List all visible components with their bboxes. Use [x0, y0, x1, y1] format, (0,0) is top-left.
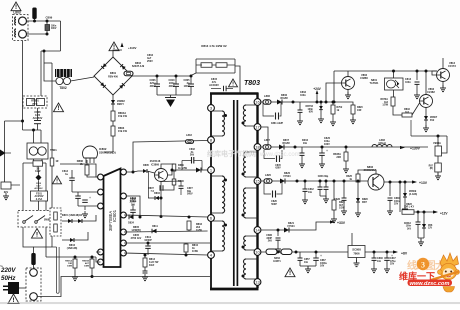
svg-text:400V: 400V	[169, 85, 175, 88]
svg-text:C861 A22P: C861 A22P	[271, 122, 284, 125]
svg-text:14: 14	[255, 227, 260, 232]
svg-text:2kV: 2kV	[268, 240, 273, 243]
svg-text:16: 16	[255, 99, 260, 104]
svg-text:100n: 100n	[405, 81, 411, 84]
svg-text:S2037-4J9: S2037-4J9	[132, 65, 145, 68]
svg-text:KGF: KGF	[149, 264, 155, 267]
svg-text:D824: D824	[128, 222, 134, 225]
svg-text:F7024: F7024	[287, 225, 295, 228]
svg-text:100V: 100V	[184, 85, 190, 88]
svg-text:F7024: F7024	[283, 175, 291, 178]
svg-text:+: +	[89, 196, 91, 200]
svg-text:+24V: +24V	[313, 87, 321, 91]
svg-text:EU871: EU871	[273, 260, 281, 263]
svg-text:C1573: C1573	[448, 64, 456, 68]
svg-text:1k2: 1k2	[405, 111, 410, 114]
svg-text:1/2W: 1/2W	[196, 229, 202, 232]
svg-text:L803: L803	[13, 11, 20, 15]
svg-text:!: !	[57, 105, 59, 112]
svg-text:250V: 250V	[147, 60, 153, 63]
svg-text:+12V: +12V	[440, 212, 448, 216]
svg-text:www.dzsc.com: www.dzsc.com	[259, 152, 300, 158]
svg-text:2700 1kV: 2700 1kV	[131, 237, 142, 240]
svg-text:3: 3	[421, 261, 425, 270]
svg-text:100n: 100n	[406, 226, 412, 228]
svg-text:L802: L802	[186, 134, 192, 137]
svg-text:500V: 500V	[187, 193, 193, 196]
svg-text:C809: C809	[46, 16, 53, 20]
svg-text:R828: R828	[406, 204, 412, 206]
svg-text:!: !	[232, 81, 234, 87]
svg-text:L807: L807	[264, 138, 270, 142]
svg-text:+8V: +8V	[401, 252, 408, 256]
svg-text:C843 39p: C843 39p	[318, 175, 329, 178]
svg-text:RU2M: RU2M	[280, 97, 287, 100]
svg-text:25V: 25V	[390, 263, 395, 266]
svg-text:10R: 10R	[357, 109, 362, 112]
svg-text:+: +	[320, 254, 322, 258]
svg-text:180n: 180n	[51, 26, 57, 28]
svg-text:13: 13	[255, 279, 260, 284]
svg-text:C3866: C3866	[360, 76, 368, 80]
svg-text:C840A: C840A	[404, 222, 411, 225]
svg-text:(4-A06): (4-A06)	[409, 193, 417, 196]
svg-text:C826: C826	[334, 198, 340, 201]
svg-text:T801: T801	[50, 148, 57, 152]
svg-text:6V2: 6V2	[430, 119, 435, 122]
svg-text:1R: 1R	[56, 161, 59, 163]
svg-text:95V: 95V	[309, 111, 314, 114]
svg-text:L820: L820	[265, 173, 271, 177]
svg-text:!: !	[289, 270, 291, 277]
svg-text:10n: 10n	[304, 261, 309, 264]
svg-text:维库电子市场网: 维库电子市场网	[207, 149, 256, 158]
svg-text:100uH: 100uH	[378, 142, 386, 145]
svg-text:R8?: R8?	[429, 166, 434, 168]
svg-text:1/2W: 1/2W	[382, 104, 388, 107]
svg-text:160V: 160V	[324, 143, 330, 146]
svg-text:V908A: V908A	[433, 141, 441, 145]
svg-text:10n: 10n	[377, 260, 382, 263]
svg-text:D801: D801	[110, 71, 117, 75]
svg-text:D805: D805	[143, 164, 149, 167]
svg-text:1/4W: 1/4W	[192, 250, 198, 253]
svg-text:C845: C845	[275, 164, 281, 167]
svg-text:10R L-KY: 10R L-KY	[404, 207, 415, 209]
svg-text:12V: 12V	[428, 228, 433, 230]
svg-text:400V: 400V	[150, 85, 156, 88]
svg-text:(1N4148): (1N4148)	[67, 247, 78, 250]
svg-text:25V: 25V	[394, 203, 399, 206]
svg-text:RU2M: RU2M	[282, 142, 289, 145]
svg-text:50Hz: 50Hz	[1, 275, 16, 282]
svg-text:620V: 620V	[275, 168, 281, 170]
svg-text:+13V: +13V	[419, 181, 428, 185]
svg-text:+33V: +33V	[337, 221, 346, 225]
svg-text:3.15A: 3.15A	[36, 198, 43, 201]
svg-text:RBV-406: RBV-406	[108, 76, 118, 79]
svg-text:+130V: +130V	[410, 147, 421, 151]
svg-text:T803: T803	[244, 80, 260, 87]
svg-text:7806: 7806	[353, 252, 360, 256]
svg-text:2kV: 2kV	[190, 154, 195, 157]
svg-text:16V: 16V	[320, 265, 325, 268]
svg-text:18: 18	[255, 144, 260, 149]
svg-text:www.dzsc.com: www.dzsc.com	[410, 281, 450, 287]
svg-text:1u: 1u	[65, 173, 68, 176]
svg-text:10n: 10n	[308, 191, 313, 194]
svg-text:!: !	[36, 232, 38, 239]
svg-text:(R): (R)	[430, 168, 433, 170]
svg-text:+310V: +310V	[128, 46, 137, 50]
svg-text:~: ~	[0, 264, 3, 270]
svg-text:1k 1/2W: 1k 1/2W	[178, 167, 188, 170]
svg-text:3BF708EA: 3BF708EA	[108, 211, 113, 231]
svg-text:10: 10	[255, 249, 260, 254]
svg-text:TLP621: TLP621	[370, 82, 380, 85]
svg-text:D815 (1N4148)X2: D815 (1N4148)X2	[62, 214, 83, 217]
svg-text:1/2W(B): 1/2W(B)	[131, 229, 140, 232]
svg-text:ZD8: ZD8	[428, 225, 433, 227]
svg-text:S2000(C)/(D): S2000(C)/(D)	[99, 151, 116, 155]
svg-text:400V: 400V	[51, 27, 57, 30]
svg-text:22R: 22R	[336, 156, 341, 159]
svg-text:1000P: 1000P	[144, 238, 152, 242]
svg-text:R813 4.7k 1/2W X2: R813 4.7k 1/2W X2	[201, 44, 227, 48]
svg-text:500P: 500P	[271, 203, 277, 206]
svg-text:15k 1W: 15k 1W	[118, 114, 127, 118]
svg-text:L806: L806	[264, 94, 270, 98]
svg-text:R801A: R801A	[65, 260, 72, 263]
svg-text:RD7: RD7	[362, 201, 367, 204]
svg-text:/C3866: /C3866	[151, 163, 160, 166]
svg-text:T802: T802	[59, 86, 66, 90]
svg-text:PTC: PTC	[33, 103, 38, 106]
svg-text:100n: 100n	[300, 94, 306, 97]
svg-text:15k 1W: 15k 1W	[118, 129, 127, 133]
svg-text:+: +	[326, 149, 328, 153]
svg-text:D811: D811	[152, 225, 158, 228]
svg-text:R2KY: R2KY	[117, 102, 124, 106]
svg-text:C2482: C2482	[427, 90, 435, 94]
svg-text:17: 17	[255, 124, 260, 129]
svg-text:AC402V: AC402V	[209, 83, 219, 87]
svg-text:1kV: 1kV	[407, 228, 412, 230]
svg-text:10n: 10n	[303, 142, 308, 145]
svg-text:D804: D804	[154, 192, 160, 195]
svg-text:!: !	[56, 178, 58, 184]
svg-text:15: 15	[255, 178, 260, 183]
svg-text:100n: 100n	[130, 199, 136, 203]
